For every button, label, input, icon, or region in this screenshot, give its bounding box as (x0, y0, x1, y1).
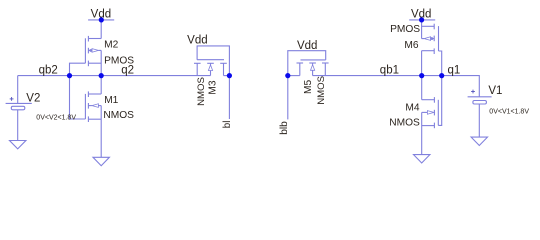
svg-text:V1: V1 (488, 85, 502, 97)
svg-text:Vdd: Vdd (297, 40, 317, 52)
wire down to ground (478, 104, 480, 137)
svg-text:NMOS: NMOS (196, 77, 207, 106)
drain lead down to node (421, 51, 423, 76)
gate bar (197, 59, 224, 61)
gate bar (84, 38, 86, 63)
drain tick (88, 93, 101, 95)
channel segments (433, 97, 435, 103)
gate lead (439, 51, 442, 76)
svg-text:Vdd: Vdd (187, 34, 207, 46)
transistor M2 (PMOS) (70, 36, 102, 76)
channel segments (87, 91, 89, 97)
transistor M4 (NMOS, mirrored) (422, 76, 442, 155)
drain tick (88, 62, 101, 64)
svg-text:0V<V2<1.8V: 0V<V2<1.8V (36, 114, 76, 121)
drain lead up to node (421, 76, 423, 100)
svg-text:Vdd: Vdd (411, 9, 431, 21)
wire right lead to bl node (224, 75, 230, 77)
transistor M3 (NMOS, rotated, gate up) (194, 46, 229, 76)
wire from qb2 down to battery (17, 76, 19, 104)
right lead down (324, 63, 326, 76)
svg-text:NMOS: NMOS (389, 118, 420, 129)
svg-text:PMOS: PMOS (104, 56, 134, 67)
wire Vdd rail down to M2 source (100, 20, 102, 39)
svg-text:bl: bl (222, 121, 233, 129)
svg-text:0V<V1<1.8V: 0V<V1<1.8V (489, 108, 529, 115)
ground under V2 (10, 141, 26, 149)
top plate (468, 96, 492, 98)
gate bar (438, 26, 440, 51)
node q1 (439, 73, 444, 78)
transistor M6 (PMOS, mirrored) (422, 20, 442, 76)
transistor M1 (NMOS) (70, 76, 102, 158)
Vdd rail (right inverter) (409, 19, 435, 21)
svg-text:M6: M6 (404, 40, 418, 51)
wire blb node to left lead (288, 75, 300, 77)
bulk+source lead down to ground (100, 106, 102, 158)
node Vdd-M2 (99, 17, 104, 22)
drain tick (422, 99, 435, 101)
svg-text:M5: M5 (303, 80, 314, 94)
wire bl down from node (228, 76, 230, 119)
node q2 (99, 73, 104, 78)
voltage source V2 (6, 76, 32, 141)
svg-text:M4: M4 (405, 103, 419, 114)
bulk line with bubble and arrow (422, 38, 425, 40)
gate lead (70, 63, 86, 75)
channel segments (194, 62, 201, 64)
node bl (227, 73, 232, 78)
svg-text:qb1: qb1 (380, 65, 399, 77)
wire down to ground (17, 110, 19, 141)
node qb2-gates (67, 73, 72, 78)
bulk line with arrow (422, 111, 428, 113)
ground under M1 (93, 157, 109, 165)
svg-text:PMOS: PMOS (390, 24, 420, 35)
Vdd staple: gate lead up, across, down to bl node (197, 46, 229, 76)
svg-text:blb: blb (279, 121, 290, 135)
svg-text:M1: M1 (104, 95, 118, 106)
bulk line with arrow (88, 105, 92, 107)
gate bar (301, 59, 326, 61)
wire qb1 net (313, 75, 442, 77)
svg-text:NMOS: NMOS (103, 110, 134, 121)
node Vdd-M6 (419, 17, 424, 22)
svg-text:q1: q1 (448, 65, 461, 77)
source tick (422, 125, 435, 127)
bulk line with bubble and arrow (88, 49, 92, 51)
bottom plate (11, 106, 24, 110)
svg-text:NMOS: NMOS (316, 76, 327, 105)
top plate (6, 102, 32, 104)
source tick (422, 25, 435, 27)
node blb (285, 73, 290, 78)
source tick (88, 118, 101, 120)
Vdd staple: down to blb node, across, gate lead down (288, 51, 326, 76)
plus sign V2 (10, 97, 14, 101)
wire blb down from node (287, 76, 289, 120)
ground under M4 (414, 155, 430, 163)
transistor M5 (NMOS, rotated, gate up, mirrored) (288, 51, 329, 76)
channel segments (297, 62, 304, 64)
left lead down (299, 63, 301, 76)
voltage source V1 (468, 97, 492, 137)
source tick (88, 38, 101, 40)
svg-text:M3: M3 (207, 80, 218, 94)
bulk+drain lead down to node (100, 50, 102, 75)
left lead down (196, 63, 198, 75)
gate bar (84, 94, 86, 119)
wire qb2 net (18, 75, 102, 77)
bulk lead with up arrow (210, 63, 212, 65)
bulk+source lead down to ground (421, 112, 423, 154)
svg-text:qb2: qb2 (39, 65, 58, 77)
channel segments (87, 36, 89, 42)
svg-text:M2: M2 (104, 39, 118, 50)
bulk lead with up arrow (312, 63, 314, 65)
ground under V1 (471, 137, 487, 145)
node qb1-gates (419, 73, 424, 78)
channel segments (433, 24, 435, 30)
wire q1 net to V1 (442, 76, 480, 97)
source lead down from rail (421, 20, 423, 39)
Vdd rail (left inverter) (88, 19, 114, 21)
drain lead up to node (100, 76, 102, 94)
gate bar (437, 100, 439, 126)
gate lead (70, 76, 86, 119)
gate lead (438, 76, 441, 126)
svg-text:Vdd: Vdd (91, 8, 111, 20)
svg-text:V2: V2 (26, 92, 40, 104)
wire q2 net (101, 75, 210, 77)
right lead down (223, 63, 225, 75)
bottom plate (473, 101, 487, 105)
drain tick (422, 50, 435, 52)
plus sign V1 (471, 90, 475, 94)
junction dots (67, 17, 444, 78)
